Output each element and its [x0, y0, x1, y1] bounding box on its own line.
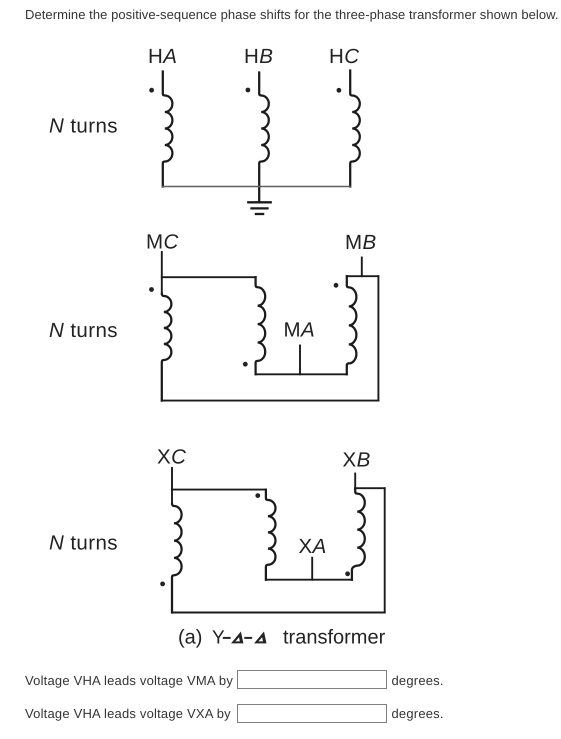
winding X right [352, 488, 365, 580]
label N turns (H) [49, 115, 118, 138]
instruction text [25, 7, 559, 22]
wire right vertical X [384, 488, 386, 612]
winding X middle [266, 490, 276, 580]
wire XA tick [311, 558, 313, 580]
wire top right X [355, 487, 385, 489]
svg-text:MC: MC [146, 231, 179, 254]
dot X right [345, 571, 350, 576]
label XA [299, 535, 327, 558]
svg-text:MB: MB [345, 231, 377, 254]
winding HC [350, 71, 360, 187]
caption dash 2 [245, 637, 251, 639]
question line 2 [25, 706, 231, 721]
dot M left [149, 287, 154, 292]
caption [178, 627, 386, 649]
svg-text:XA: XA [299, 535, 327, 558]
wire top bus X [172, 489, 266, 491]
caption delta 1 [231, 632, 243, 644]
dot HA [149, 88, 154, 93]
label N turns (M) [49, 319, 118, 342]
winding M middle [256, 277, 266, 374]
label XB [343, 449, 371, 472]
wire inner bus M [256, 373, 347, 375]
winding X left [172, 504, 182, 613]
svg-text:MA: MA [284, 319, 316, 342]
caption dash 1 [224, 637, 230, 639]
caption delta 2 [254, 632, 266, 644]
svg-text:(a): (a) [178, 627, 202, 649]
wire XB lead [354, 474, 356, 489]
wire MB lead [361, 258, 363, 277]
svg-text:transformer: transformer [283, 627, 386, 649]
label MA [284, 319, 316, 342]
svg-text:HC: HC [329, 45, 359, 68]
svg-text:XC: XC [157, 446, 186, 469]
label HA [148, 45, 177, 68]
wire XC lead [171, 468, 173, 504]
wire bottom bus X [172, 612, 385, 614]
wire bottom bus M [162, 400, 379, 402]
winding HA [163, 72, 173, 187]
label N turns (X) [49, 532, 118, 555]
dot HB [246, 88, 251, 93]
wire top right M [347, 275, 379, 277]
wire neutral bus H [162, 186, 349, 188]
dot M right [334, 283, 339, 288]
svg-text:N turns: N turns [49, 532, 118, 555]
wire inner bus X [266, 579, 352, 581]
winding HB [259, 73, 269, 202]
dot M middle [243, 362, 248, 367]
wire MA tick [299, 346, 301, 375]
label MB [345, 231, 377, 254]
winding M left [162, 294, 172, 401]
dot HC [337, 88, 342, 93]
wire right vertical M [377, 276, 379, 400]
label XC [157, 446, 186, 469]
svg-text:XB: XB [343, 449, 371, 472]
wire top bus M [162, 276, 256, 278]
label MC [146, 231, 179, 254]
dot X middle [255, 493, 260, 498]
question line 1 [25, 673, 233, 688]
svg-text:N turns: N turns [49, 319, 118, 342]
svg-text:HA: HA [148, 45, 177, 68]
ground [248, 202, 270, 214]
dot X left [160, 582, 165, 587]
svg-text:HB: HB [244, 45, 273, 68]
label HC [329, 45, 359, 68]
winding M right [347, 276, 357, 374]
wire MC lead [161, 252, 163, 294]
svg-text:N turns: N turns [49, 115, 118, 138]
label HB [244, 45, 273, 68]
